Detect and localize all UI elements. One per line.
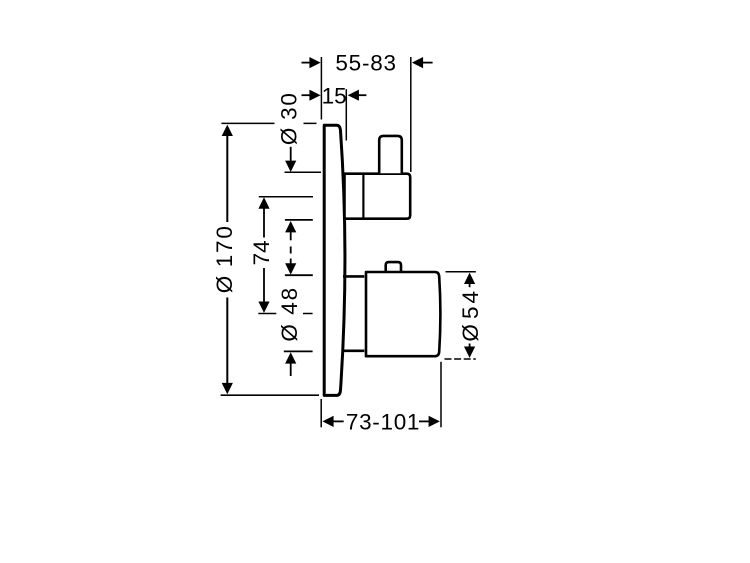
dimension 55-83: left arrow: [302, 57, 321, 68]
dimension O48: bottom extension line: [284, 350, 313, 352]
dimension 15: right arrow: [348, 90, 367, 101]
dimension O54: top extension line: [446, 271, 476, 273]
dimension 74: bottom extension line: [258, 313, 312, 315]
svg-text:170: 170: [212, 224, 237, 267]
dash connector between O30 and O48 arrows: [290, 247, 292, 254]
dimension 74: dimension line: [263, 208, 265, 303]
dimension O48: upper arrow (down): [285, 259, 296, 275]
dimension 15: left arrow: [302, 90, 321, 101]
lower handle sleeve (stem): [343, 276, 364, 350]
dimension O54: bottom extension line (dashed): [445, 358, 476, 360]
dimension 15: right extension line: [345, 89, 347, 140]
svg-text:30: 30: [276, 91, 301, 120]
dimension O30: bottom extension line: [285, 219, 313, 221]
dimension 74: down arrow: [258, 302, 269, 313]
lower handle tab: [386, 262, 401, 271]
dimension O170: dimension line: [226, 136, 228, 384]
dimension O170: down arrow: [222, 383, 233, 394]
svg-text:55-83: 55-83: [335, 51, 397, 76]
dimension 55-83: right extension line: [410, 57, 412, 172]
svg-text:Ø: Ø: [458, 324, 483, 342]
dimension O170: bottom extension line: [221, 394, 319, 396]
svg-text:Ø: Ø: [276, 128, 301, 146]
svg-text:15: 15: [322, 83, 347, 108]
dimension O170: up arrow: [222, 125, 233, 136]
dimension 73-101: left extension line: [320, 399, 322, 427]
dimension O30: top extension line: [285, 171, 322, 173]
lower handle body: [366, 272, 440, 356]
dimension O54: upper arrow (up): [464, 273, 475, 288]
dimension O48: lower arrow (up): [285, 352, 296, 376]
svg-text:74: 74: [249, 240, 274, 265]
dimension 73-101: left arrow: [322, 416, 343, 427]
svg-text:Ø: Ø: [212, 276, 237, 294]
svg-text:48: 48: [277, 286, 302, 315]
upper handle joint line: [362, 173, 364, 220]
dimension O48: top extension line: [285, 274, 313, 276]
upper handle knob: [379, 136, 402, 173]
dimension 55-83: right arrow: [412, 57, 433, 68]
dimension 73-101: right arrow: [419, 416, 440, 427]
svg-text:73-101: 73-101: [346, 410, 420, 435]
dimension 74: up arrow: [258, 197, 269, 208]
dimension O30: lower arrow (up): [285, 221, 296, 240]
dimension 74: top extension line: [259, 196, 313, 198]
svg-text:Ø: Ø: [277, 324, 302, 342]
dimension 73-101: right extension line: [440, 362, 442, 428]
dimension O170: top extension line: [221, 122, 316, 124]
upper handle sleeve and body outline: [345, 174, 411, 219]
dimension O54: lower arrow (down): [464, 344, 475, 358]
dimension O30: upper arrow (down): [285, 147, 296, 172]
dimension 55-83: left extension line: [320, 57, 322, 120]
escutcheon plate (side view): [324, 125, 345, 395]
svg-text:54: 54: [458, 288, 483, 319]
